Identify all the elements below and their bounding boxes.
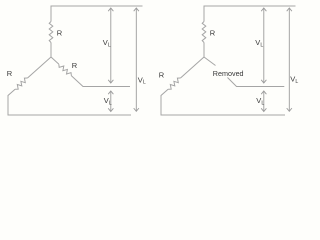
svg-text:R: R: [159, 71, 165, 80]
svg-text:VL: VL: [290, 75, 298, 85]
svg-text:VL: VL: [103, 38, 111, 48]
svg-text:VL: VL: [255, 38, 263, 48]
svg-text:VL: VL: [138, 75, 146, 85]
svg-text:R: R: [72, 61, 78, 70]
svg-text:Removed: Removed: [213, 69, 244, 78]
svg-text:R: R: [7, 69, 13, 78]
svg-text:R: R: [57, 29, 63, 38]
svg-text:VL: VL: [256, 96, 264, 106]
svg-text:R: R: [210, 29, 216, 38]
